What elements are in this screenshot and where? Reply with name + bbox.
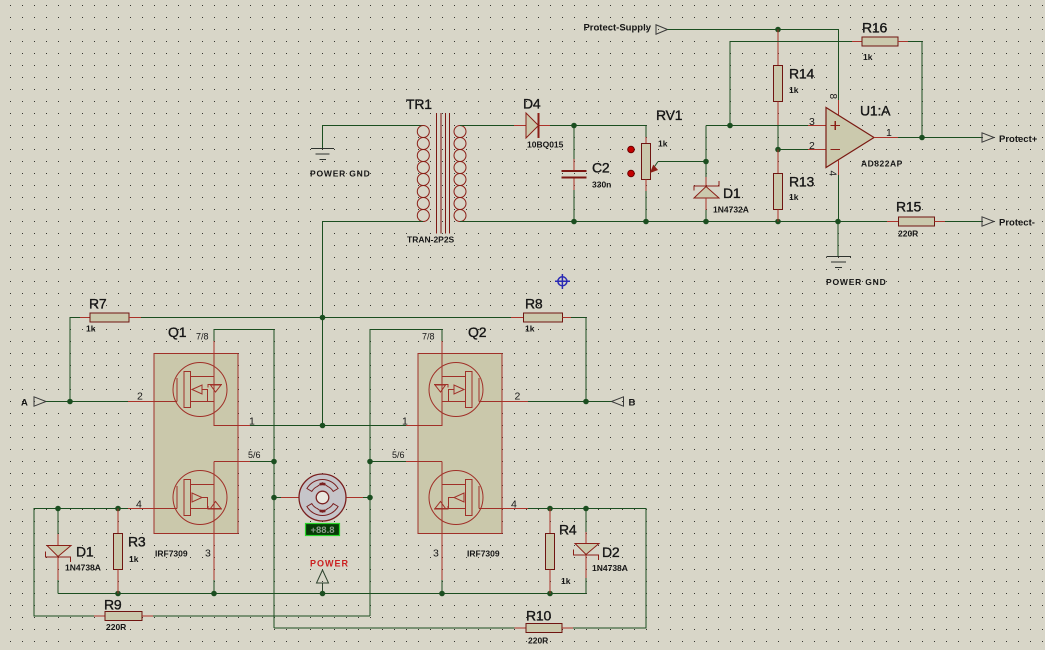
svg-text:R4: R4 (559, 522, 577, 538)
terminal Protect- (982, 217, 1035, 229)
svg-text:D4: D4 (523, 96, 541, 112)
junction node (586,508.5) (583, 506, 589, 512)
svg-text:1: 1 (402, 416, 408, 428)
wire: right ground column (837, 222, 839, 257)
MOSFET package Q2 IRF7309 (418, 354, 502, 534)
svg-text:3: 3 (433, 548, 439, 560)
junction node (274,461.5) (271, 459, 277, 465)
svg-text:1k: 1k (525, 324, 535, 334)
junction node (778,149.5) (775, 147, 781, 153)
svg-text:1N4738A: 1N4738A (592, 563, 628, 573)
junction node (322,317.5) (320, 315, 326, 321)
resistor R4 1k (546, 509, 555, 594)
svg-text:TRAN-2P2S: TRAN-2P2S (407, 235, 455, 245)
junction node (571,401.5) (583, 399, 589, 405)
junction node (730,125.5) (727, 123, 733, 129)
svg-text:2: 2 (515, 391, 521, 403)
svg-text:1k: 1k (863, 52, 873, 62)
wire: motor left (274, 497, 281, 499)
svg-text:Q2: Q2 (468, 324, 487, 340)
svg-text:R10: R10 (526, 608, 551, 624)
svg-text:AD822AP: AD822AP (861, 159, 903, 169)
wire: Q2 pin1 to center column (406, 425, 418, 427)
ground POWER GND left (311, 149, 334, 160)
RV1 test point dots (628, 146, 635, 153)
diode D4 10BQ015 (514, 113, 550, 138)
wire: Q1 pin4 row (128, 508, 154, 510)
capacitor C2 330n (562, 126, 587, 222)
wire: Q2 pin3 to rail (441, 534, 443, 581)
junction node (322,425.5) (320, 423, 326, 429)
junction node (70,401.5) (67, 399, 73, 405)
svg-text:2: 2 (137, 391, 143, 403)
resistor R14 1k (774, 30, 783, 150)
wire: wiper column top to pin3 node (706, 125, 730, 127)
svg-text:1k: 1k (129, 554, 139, 564)
wire: secondary bottom rail (460, 221, 838, 223)
opamp pin8 stub (838, 100, 840, 115)
Q1 upper MOSFET cell (154, 354, 238, 426)
wire: bottom rail (58, 593, 586, 595)
svg-text:220R: 220R (106, 622, 126, 632)
wire: TR1 primary bottom + center column down to H-bridge (323, 222, 424, 426)
junction node (118,508.5) (115, 506, 121, 512)
svg-text:2: 2 (809, 140, 815, 152)
resistor R8 1k (511, 313, 586, 322)
svg-text:10BQ015: 10BQ015 (527, 140, 564, 150)
ground POWER GND right (827, 257, 852, 268)
transformer TR1 core (437, 113, 450, 234)
potentiometer RV1 1k (642, 137, 707, 222)
svg-text:R3: R3 (128, 534, 146, 550)
wire: TR1 primary top to ground (323, 126, 424, 149)
wire: Q2 pin4 row (502, 508, 528, 510)
svg-text:1k: 1k (86, 324, 96, 334)
wire: Q1 pin7/8 gate loop to R10 column (214, 330, 274, 629)
wire: opamp output (874, 137, 898, 139)
junction node (778,29.5) (775, 27, 781, 33)
wire: D4 to RV1 top (550, 126, 646, 138)
svg-text:1N4738A: 1N4738A (65, 563, 101, 573)
svg-text:Protect-: Protect- (999, 218, 1035, 229)
terminal Protect+ (982, 133, 1038, 145)
wire: Q2 pin2 to B (502, 401, 528, 403)
svg-text:R13: R13 (789, 174, 814, 190)
wire: Q1 pin3 to rail (213, 534, 215, 581)
wire: pin3 row (730, 125, 808, 127)
wire: pin2 row (778, 149, 808, 151)
svg-text:RV1: RV1 (656, 107, 683, 123)
wire: Q1 pin1 to center column (238, 425, 250, 427)
junction node (370,461.5) (367, 459, 373, 465)
svg-text:1: 1 (249, 416, 255, 428)
svg-text:1N4732A: 1N4732A (713, 205, 749, 215)
svg-text:8: 8 (827, 94, 838, 100)
wire: motor right (346, 497, 363, 499)
svg-text:5/6: 5/6 (248, 450, 261, 460)
junction node (58,508.5) (55, 506, 61, 512)
zener D1 1N4732A (694, 177, 719, 222)
junction node (920,137.5) (919, 135, 925, 141)
wire: Q1 pin5/6 (214, 461, 238, 463)
marker: blue origin crosshair (555, 274, 570, 289)
svg-text:220R: 220R (898, 229, 918, 239)
svg-text:TR1: TR1 (406, 96, 432, 112)
wire: wiper node column to D1 (705, 126, 707, 178)
opamp pin4 stub down (838, 160, 840, 175)
wire: R8 right column to B row (585, 318, 587, 402)
wire: TR1 secondary top to D4 (460, 125, 514, 127)
wire: R15 to Protect- (945, 221, 982, 223)
svg-text:POWER: POWER (310, 559, 349, 569)
svg-text:3: 3 (809, 116, 815, 128)
wire: R15 row from gnd node (838, 221, 887, 223)
svg-text:R16: R16 (862, 20, 887, 36)
resistor R3 1k (114, 509, 123, 594)
terminal B (612, 397, 636, 409)
svg-text:1k: 1k (658, 139, 668, 149)
svg-text:3: 3 (205, 548, 211, 560)
motor body (299, 474, 346, 521)
wire: A to Q1 pin2 (46, 401, 128, 403)
wire: R10 to Q1 gate column (274, 627, 515, 629)
Q2 upper MOSFET cell (418, 354, 502, 426)
MOSFET package Q1 IRF7309 (154, 354, 238, 534)
resistor R9 220R (94, 612, 153, 621)
resistor R13 1k (774, 150, 783, 222)
svg-text:R15: R15 (896, 199, 921, 215)
wire: R7 to R8 row (141, 317, 511, 319)
junction node (370,497.5) (367, 495, 373, 501)
transformer TR1 windings (417, 126, 466, 222)
motor LCD readout (306, 524, 340, 537)
svg-text:Q1: Q1 (168, 324, 187, 340)
wire: R16 right to output node (908, 42, 922, 138)
svg-text:U1:A: U1:A (860, 103, 891, 119)
svg-text:1k: 1k (789, 192, 799, 202)
svg-text:B: B (629, 398, 636, 409)
resistor R15 220R (887, 217, 945, 226)
svg-text:POWER GND: POWER GND (826, 277, 887, 287)
wire: R16 feedback row and column (730, 42, 852, 126)
svg-text:D2: D2 (602, 544, 620, 560)
junction node (574,125.5) (571, 123, 577, 129)
wire: opamp pin4 to gnd node (838, 175, 840, 222)
svg-text:R9: R9 (104, 597, 122, 613)
svg-text:330n: 330n (592, 180, 611, 190)
svg-text:220R: 220R (528, 636, 548, 646)
terminal POWER arrow (317, 570, 329, 594)
wire: R9 to Q2 gate column (153, 615, 370, 617)
junction node (550,508.5) (547, 506, 553, 512)
wire: Protect-Supply to opamp pin8 column (668, 30, 839, 101)
svg-text:5/6: 5/6 (392, 450, 405, 460)
Q1 lower MOSFET cell (154, 462, 227, 534)
svg-text:7/8: 7/8 (422, 332, 435, 342)
resistor R10 220R (515, 624, 574, 633)
svg-text:R14: R14 (789, 66, 814, 82)
op-amp U1:A AD822AP (826, 108, 874, 168)
wire: Q2 pin7/8 gate loop to R9 column (370, 330, 442, 617)
svg-text:+88.8: +88.8 (310, 525, 334, 536)
svg-text:4: 4 (827, 171, 838, 177)
wire: R7 left column from A node (70, 318, 80, 402)
svg-text:R7: R7 (89, 296, 107, 312)
terminal A (21, 397, 46, 409)
svg-text:A: A (21, 398, 28, 409)
svg-text:1k: 1k (561, 576, 571, 586)
svg-text:IRF7309: IRF7309 (155, 549, 188, 559)
resistor R7 1k (80, 313, 141, 322)
wire: Q2 pin5/6 (418, 461, 442, 463)
junction nodes on bottom rail (115, 591, 553, 597)
svg-text:C2: C2 (592, 160, 610, 176)
junction nodes on bottom rail (571, 219, 841, 225)
svg-text:D1: D1 (76, 544, 94, 560)
terminal Protect-Supply (583, 23, 667, 35)
svg-text:Protect+: Protect+ (999, 134, 1038, 145)
zener D2 1N4738A (574, 509, 600, 594)
svg-text:Protect-Supply: Protect-Supply (583, 23, 651, 34)
svg-text:R8: R8 (525, 296, 543, 312)
resistor R16 1k (852, 37, 918, 46)
svg-text:POWER GND: POWER GND (310, 169, 371, 179)
junction node (322,593.5) (320, 591, 326, 597)
Q2 lower MOSFET cell (429, 462, 502, 534)
svg-text:IRF7309: IRF7309 (467, 549, 500, 559)
svg-text:7/8: 7/8 (196, 332, 209, 342)
svg-text:D1: D1 (723, 185, 741, 201)
zener D1 1N4738A (lower) (46, 509, 72, 594)
junction node (274,497.5) (271, 495, 277, 501)
junction node (706,161.5) (703, 159, 709, 165)
svg-text:1k: 1k (789, 85, 799, 95)
